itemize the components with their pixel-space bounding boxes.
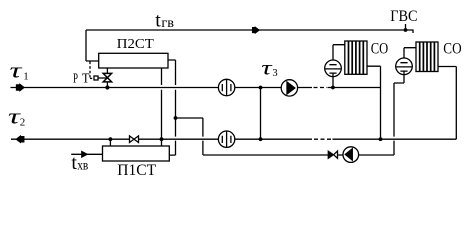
- tau2 arrow: [16, 136, 23, 142]
- txv inlet line: [71, 153, 102, 155]
- node junction dots: [105, 28, 407, 141]
- node tau3/tau1: [259, 86, 263, 90]
- wire tau3 riser: [260, 88, 262, 140]
- check valve bottom: [328, 151, 337, 158]
- valve RT actuator stem: [98, 77, 107, 79]
- wire P2ST right outlet: [168, 60, 176, 155]
- wire tau2 dashed segment: [314, 138, 331, 140]
- svg-text:t: t: [155, 10, 161, 32]
- node P2ST-P1ST/tau2: [160, 137, 164, 141]
- valve RT hourglass: [103, 73, 111, 82]
- node valve/tau1: [105, 85, 109, 89]
- svg-text:2: 2: [20, 117, 26, 129]
- node GVS: [404, 28, 408, 32]
- wire branch to circulation: [176, 118, 203, 155]
- svg-text:П2СТ: П2СТ: [117, 37, 154, 52]
- node tau3/tau2: [259, 137, 263, 141]
- GVS stub: [405, 24, 407, 30]
- heat exchanger P2ST body: [99, 53, 168, 68]
- wire tau1 line right part: [328, 87, 381, 89]
- txv arrow: [82, 152, 87, 157]
- circulation pump bottom: [343, 147, 359, 163]
- tau2 bypass valve bowtie: [130, 136, 139, 143]
- wire bottom circulation line: [203, 154, 394, 156]
- flowmeter circle on tau2: [218, 131, 234, 147]
- wire right riser jog to circulation: [394, 83, 404, 155]
- wire tgv riser: [86, 30, 99, 61]
- valve RT actuator square: [94, 76, 98, 80]
- wire tau2 return right part: [333, 138, 457, 140]
- svg-text:П1СТ: П1СТ: [117, 162, 156, 179]
- wire right CO return: [438, 67, 456, 140]
- right CO radiator: [416, 42, 438, 72]
- node left CO return/tau2: [379, 137, 383, 141]
- heat exchanger P1ST body: [103, 146, 170, 161]
- left CO strainer circle: [325, 60, 342, 87]
- node P1ST left/tau2: [109, 137, 113, 141]
- svg-text:Р: Р: [73, 70, 78, 85]
- flowmeter circle on tau1: [218, 79, 234, 95]
- wire tau1 main line: [11, 87, 313, 89]
- svg-text:3: 3: [272, 68, 277, 79]
- wire tgv top line: [86, 29, 413, 31]
- valve RT stub top: [106, 68, 108, 73]
- svg-text:СО: СО: [443, 40, 461, 57]
- svg-text:ГВС: ГВС: [390, 8, 417, 25]
- wire P1ST left stub: [109, 139, 111, 146]
- right CO riser: [404, 48, 416, 63]
- wire tau2 return line: [11, 138, 312, 140]
- regulator dashed sensor line: [89, 62, 91, 78]
- node branch: [174, 116, 178, 120]
- left CO riser: [333, 45, 345, 65]
- tgv flow arrow: [253, 27, 259, 32]
- node left CO/tau1: [331, 86, 335, 90]
- valve RT stub bottom: [106, 82, 108, 88]
- right CO strainer circle: [396, 58, 413, 83]
- tau1 arrow: [17, 85, 24, 91]
- pump on tau1: [281, 80, 297, 96]
- wire left CO return: [367, 66, 381, 139]
- wire P2ST bottom to tau2: [161, 68, 163, 146]
- svg-text:Т: Т: [82, 70, 90, 85]
- svg-text:1: 1: [23, 71, 29, 83]
- left CO radiator: [345, 41, 367, 74]
- wire tgv end tick: [412, 29, 414, 33]
- svg-text:хв: хв: [77, 158, 88, 173]
- wire tau1 dashed segment: [314, 87, 328, 89]
- svg-text:СО: СО: [371, 40, 389, 57]
- svg-text:τ: τ: [10, 58, 23, 83]
- svg-text:гв: гв: [161, 16, 174, 31]
